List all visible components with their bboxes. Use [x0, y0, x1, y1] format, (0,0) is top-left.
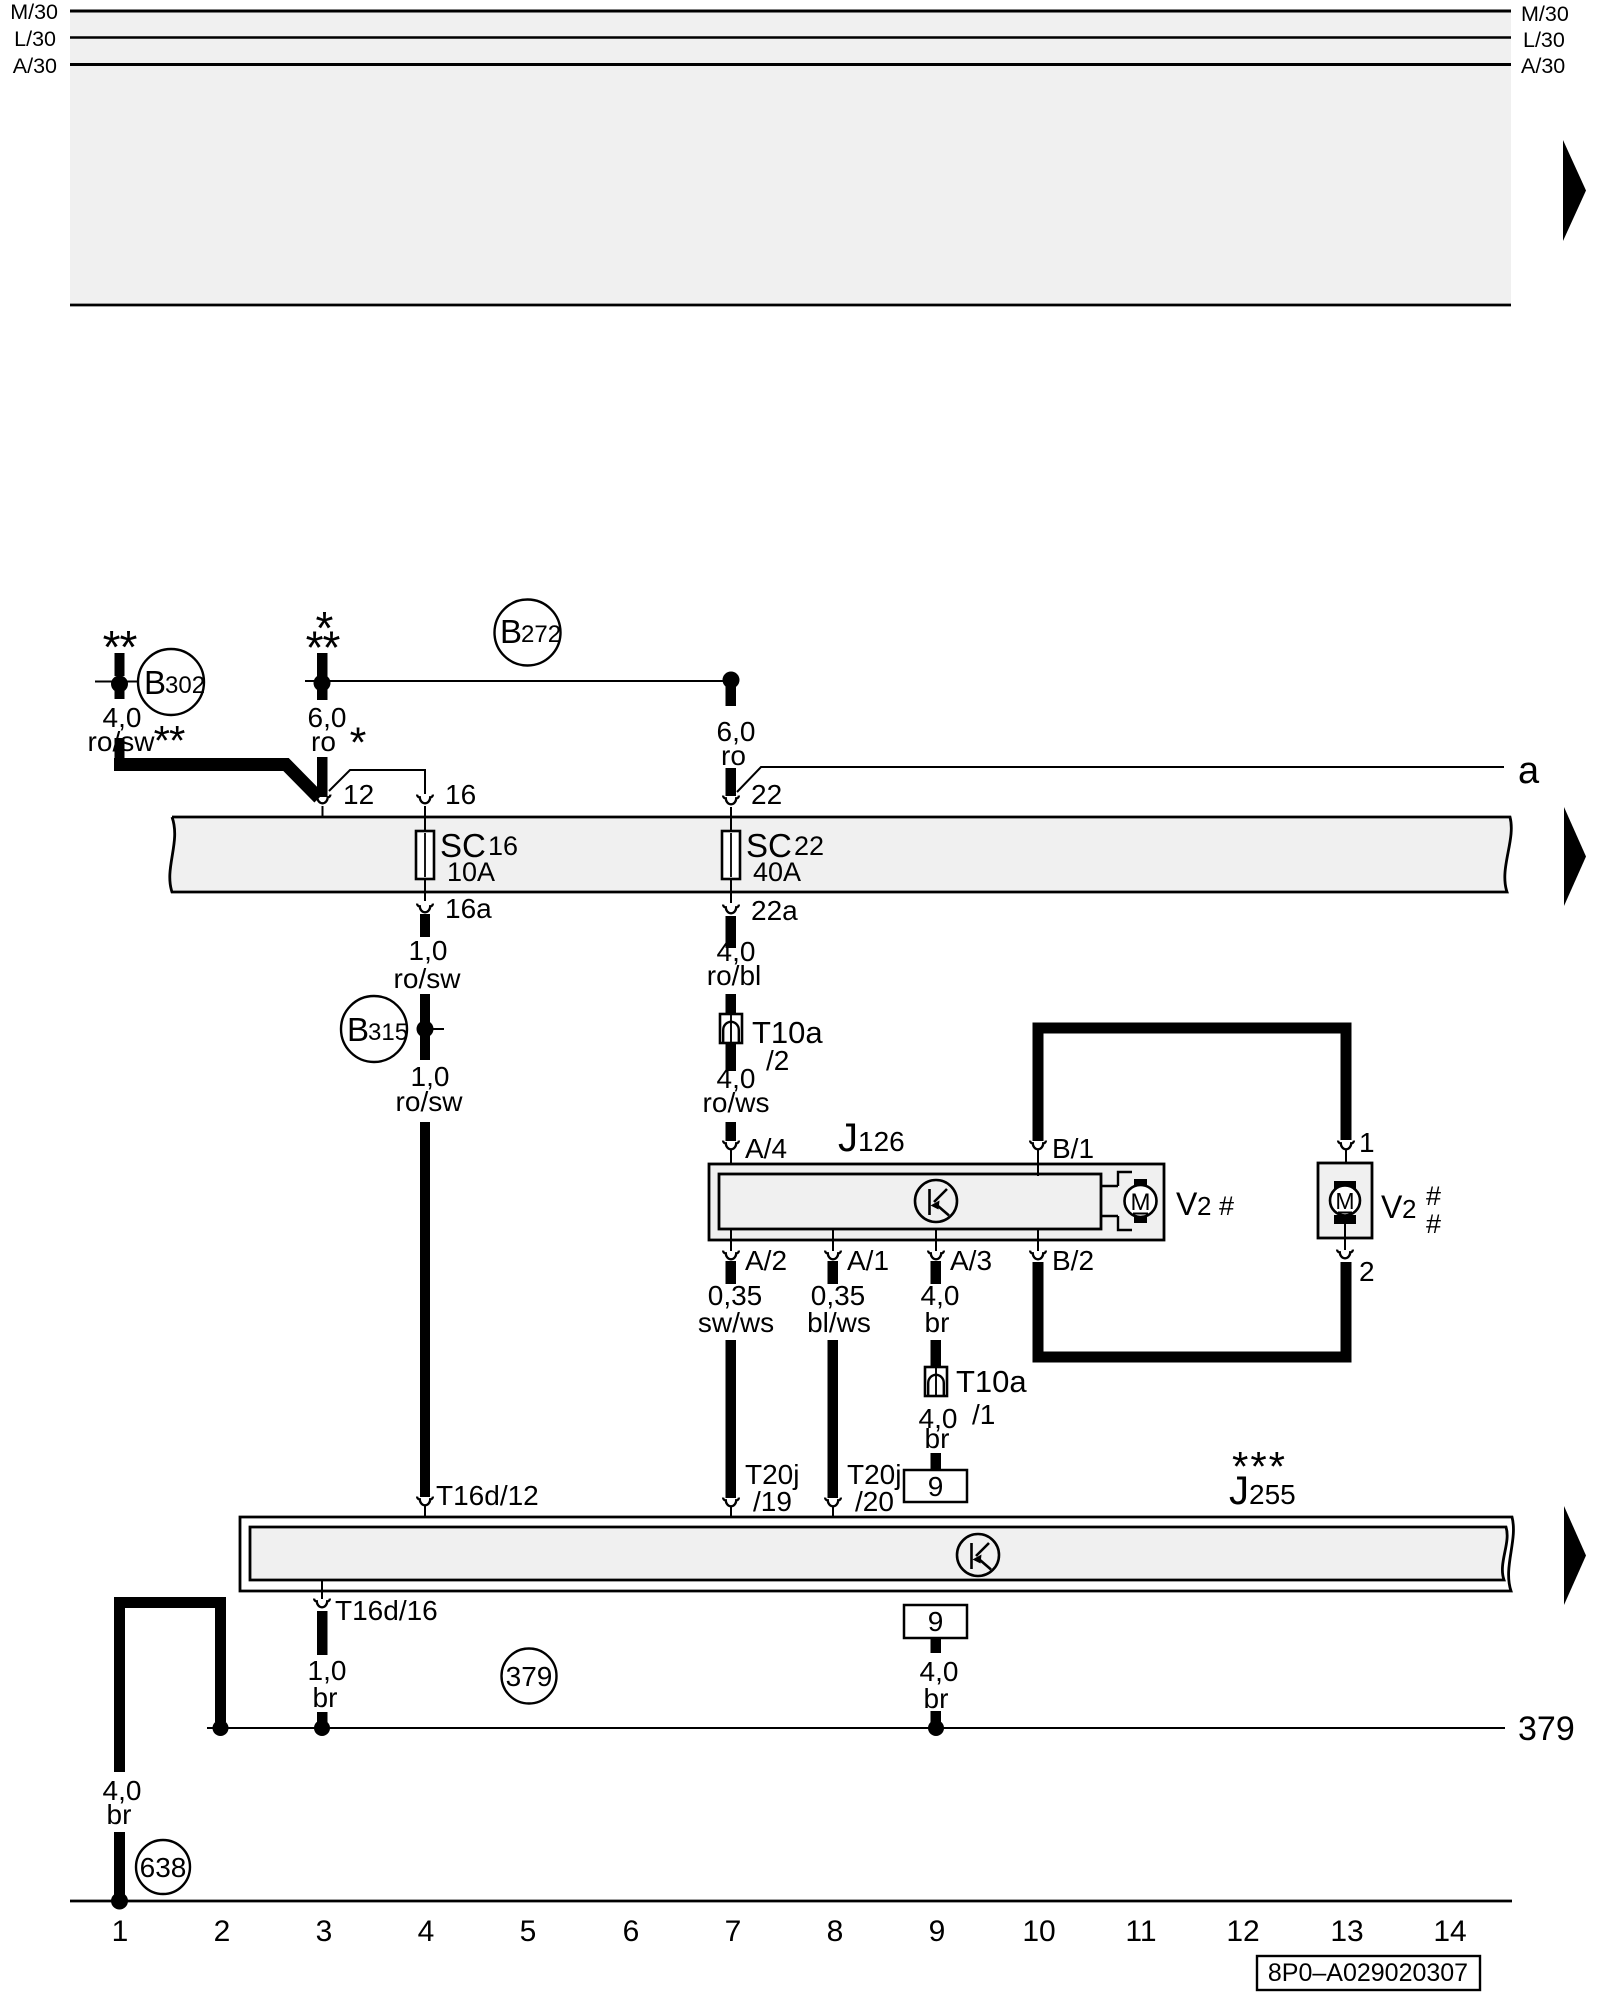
wire thin jumper B272 line: [305, 680, 731, 682]
terminal socket T16d/16: [314, 1580, 330, 1607]
svg-text:T10a: T10a: [956, 1364, 1027, 1399]
label 4,0 br (ground strap): [103, 1775, 142, 1830]
svg-text:*: *: [350, 719, 367, 767]
terminal socket 12: [315, 795, 331, 817]
bus band 30 (M/30 L/30 A/30 supply rail area): [70, 11, 1511, 305]
bottom rail line: [70, 1900, 1512, 1903]
pin label T20j/20: [847, 1459, 901, 1517]
svg-text:A/30: A/30: [13, 54, 57, 78]
label 0,35 bl/ws: [807, 1280, 871, 1338]
svg-text:5: 5: [520, 1915, 537, 1948]
junction dot B315: [417, 1021, 434, 1038]
junction dot (left leg to 379): [213, 1720, 229, 1736]
svg-text:2: 2: [1197, 1191, 1211, 1221]
svg-text:ro/bl: ro/bl: [707, 960, 761, 991]
track numbers 1-14: [112, 1915, 1467, 1948]
terminal socket B/1: [1030, 1141, 1046, 1176]
svg-text:#: #: [1426, 1181, 1441, 1211]
label 6,0 ro *: [308, 702, 367, 767]
svg-text:9: 9: [928, 1471, 944, 1502]
terminal socket B/2: [1030, 1229, 1046, 1259]
svg-text:T16d/16: T16d/16: [335, 1595, 438, 1626]
wire 6,0 ro (branch to terminal 12): [306, 602, 341, 797]
svg-text:A/30: A/30: [1521, 54, 1565, 78]
svg-text:11: 11: [1125, 1915, 1156, 1948]
terminal socket A/4: [723, 1141, 739, 1174]
terminal socket T20j/20: [825, 1498, 841, 1527]
wire long run to T16d/12: [420, 1122, 430, 1497]
wire 0,35 bl/ws: [828, 1261, 839, 1498]
svg-text:1: 1: [112, 1915, 129, 1948]
svg-text:B/1: B/1: [1052, 1133, 1094, 1164]
terminal socket T20j/19: [723, 1498, 739, 1527]
control module J255 box: [240, 1517, 1513, 1591]
svg-text:126: 126: [858, 1126, 905, 1157]
label 4,0 ro/sw **: [88, 702, 185, 764]
terminal socket 1 (V2##): [1338, 1141, 1354, 1184]
connector label T10a /1: [956, 1364, 1027, 1430]
svg-text:br: br: [924, 1683, 949, 1714]
wire thick bend into terminal 12: [114, 765, 319, 799]
continuation arrow top right: [1563, 140, 1586, 241]
svg-text:br: br: [313, 1682, 338, 1713]
svg-text:bl/ws: bl/ws: [807, 1307, 871, 1338]
svg-text:16a: 16a: [445, 893, 492, 924]
svg-text:8P0–A029020307: 8P0–A029020307: [1268, 1959, 1468, 1987]
wire 0,35 sw/ws: [726, 1261, 737, 1498]
svg-text:ro: ro: [311, 726, 336, 757]
svg-text:ro/sw: ro/sw: [394, 963, 462, 994]
svg-text:#: #: [1426, 1209, 1441, 1239]
label 1,0 br: [308, 1655, 347, 1713]
svg-text:V: V: [1176, 1186, 1198, 1222]
svg-text:br: br: [107, 1799, 132, 1830]
wire jumper terminal 12 to fuse 16: [329, 770, 425, 794]
junction dot at 6,0 ro: [314, 675, 331, 692]
sensor circle B302: [138, 649, 205, 715]
svg-text:ro: ro: [721, 740, 746, 771]
wire 1,0 ro/sw (below fuse 16): [420, 914, 430, 937]
connector T10a/2: [720, 994, 742, 1071]
svg-text:a: a: [1518, 750, 1540, 792]
fuse label SC22 40A: [746, 827, 824, 887]
svg-text:2: 2: [1359, 1256, 1375, 1287]
svg-text:638: 638: [140, 1852, 187, 1883]
svg-text:L/30: L/30: [1523, 28, 1565, 52]
junction dot (splice 9 to 379): [928, 1720, 944, 1736]
svg-text:22: 22: [751, 779, 782, 810]
sensor circle B315: [341, 996, 408, 1062]
svg-text:379: 379: [506, 1661, 553, 1692]
svg-text:1: 1: [1359, 1127, 1375, 1158]
svg-text:br: br: [925, 1307, 950, 1338]
terminal socket A/1: [825, 1229, 841, 1259]
label 4,0 ro/bl: [707, 936, 761, 991]
svg-text:B: B: [144, 664, 166, 701]
svg-text:7: 7: [725, 1915, 742, 1948]
continuation arrow fuse bar right: [1564, 807, 1586, 906]
ground circle 638: [136, 1840, 190, 1894]
wire to A/4: [726, 1122, 737, 1141]
svg-text:/19: /19: [753, 1486, 792, 1517]
svg-text:B/2: B/2: [1052, 1245, 1094, 1276]
svg-text:4: 4: [418, 1915, 435, 1948]
svg-text:B: B: [500, 613, 522, 650]
svg-text:V: V: [1381, 1189, 1403, 1225]
terminal socket 22: [723, 796, 739, 805]
control symbol K (J126): [915, 1180, 957, 1222]
svg-text:**: **: [154, 717, 185, 764]
svg-text:J: J: [1229, 1469, 1249, 1513]
ground point dot 638: [111, 1893, 128, 1910]
terminal socket T16d/12: [417, 1497, 433, 1527]
svg-text:2: 2: [214, 1915, 231, 1948]
label V2 ##: [1381, 1181, 1441, 1239]
svg-text:10: 10: [1022, 1915, 1055, 1948]
svg-text:M: M: [1131, 1189, 1151, 1216]
svg-text:/20: /20: [855, 1486, 894, 1517]
terminal socket 2 (V2##): [1337, 1224, 1353, 1258]
splice box 9 upper: [904, 1470, 967, 1502]
wire 4,0 ro/sw from B302 (left branch): [103, 621, 138, 760]
wire 4,0 br (splice 9 to ground bus): [931, 1638, 942, 1728]
control module J126 box: [709, 1164, 1164, 1240]
fuse SC22 40A: [722, 807, 740, 903]
svg-text:#: #: [1219, 1191, 1234, 1221]
ground bus wire 379: [207, 1727, 1505, 1729]
wire net a: [737, 767, 1504, 792]
svg-text:9: 9: [929, 1915, 946, 1948]
svg-text:9: 9: [928, 1606, 944, 1637]
label 1,0 ro/sw (lower): [396, 1061, 464, 1117]
fuse box bar (SC fuse panel): [170, 817, 1512, 892]
terminal socket 16a: [417, 904, 433, 913]
label 1,0 ro/sw: [394, 935, 462, 994]
svg-text:315: 315: [368, 1019, 408, 1046]
svg-text:L/30: L/30: [14, 27, 56, 51]
continuation arrow J255 right: [1564, 1506, 1586, 1605]
svg-text:B: B: [347, 1011, 369, 1048]
svg-text:J: J: [838, 1116, 858, 1160]
label V2 #: [1176, 1186, 1234, 1222]
label J126: [838, 1116, 905, 1160]
svg-text:8: 8: [827, 1915, 844, 1948]
connector label T10a /2: [752, 1015, 823, 1076]
svg-text:br: br: [925, 1423, 950, 1454]
svg-text:A/3: A/3: [950, 1245, 992, 1276]
label 4,0 br (T10a/1): [919, 1403, 958, 1454]
motor V2 sharp (attached, fresh air blower): [1101, 1172, 1157, 1230]
svg-text:sw/ws: sw/ws: [698, 1307, 774, 1338]
svg-text:22a: 22a: [751, 895, 798, 926]
label *** J255: [1229, 1443, 1296, 1513]
svg-text:3: 3: [316, 1915, 333, 1948]
connector T10a/1: [925, 1367, 947, 1470]
svg-text:T16d/12: T16d/12: [436, 1480, 539, 1511]
terminal socket 22a: [723, 905, 739, 914]
wire 4,0 br (A/3): [931, 1261, 942, 1367]
svg-text:A/4: A/4: [745, 1133, 787, 1164]
wire thick loop upper (B/1 to V2## pin 1): [1038, 1028, 1346, 1141]
svg-text:ro/sw: ro/sw: [396, 1086, 464, 1117]
wire B315 branch (x=425): [420, 994, 444, 1060]
svg-text:M/30: M/30: [10, 0, 58, 24]
fuse SC16 10A: [416, 806, 434, 901]
splice box 9 lower: [904, 1605, 967, 1638]
svg-text:/1: /1: [972, 1399, 995, 1430]
svg-text:M/30: M/30: [1521, 2, 1569, 26]
svg-text:13: 13: [1330, 1915, 1363, 1948]
label 4,0 ro/ws: [703, 1063, 770, 1118]
label 4,0 br (A/3): [921, 1280, 960, 1338]
svg-text:16: 16: [445, 779, 476, 810]
svg-text:/2: /2: [766, 1045, 789, 1076]
svg-text:ro/sw: ro/sw: [88, 726, 156, 757]
svg-text:12: 12: [343, 779, 374, 810]
svg-text:40A: 40A: [753, 857, 801, 887]
wire 4,0 ro/bl: [726, 916, 737, 948]
motor V2 ## box: [1318, 1163, 1372, 1238]
svg-text:A/1: A/1: [847, 1245, 889, 1276]
svg-text:10A: 10A: [447, 857, 495, 887]
ground circle 379: [502, 1649, 557, 1704]
fuse label SC16 10A: [440, 827, 518, 887]
svg-text:M: M: [1335, 1188, 1354, 1214]
svg-text:14: 14: [1433, 1915, 1466, 1948]
terminal socket A/3: [928, 1229, 944, 1259]
svg-text:302: 302: [165, 672, 205, 699]
junction dot B302 tap: [95, 676, 140, 693]
terminal socket 16: [417, 795, 433, 804]
svg-text:272: 272: [521, 621, 561, 648]
svg-text:12: 12: [1226, 1915, 1259, 1948]
pin label T20j/19: [745, 1459, 799, 1517]
control symbol K (J255): [957, 1534, 999, 1576]
junction dot (T16d/16 to 379): [314, 1720, 330, 1736]
wire 6,0 ro (down to fuse 22): [723, 672, 740, 797]
svg-text:1,0: 1,0: [409, 935, 448, 966]
wire thick loop lower (B/2 to V2## pin 2): [1038, 1262, 1346, 1357]
label 0,35 sw/ws: [698, 1280, 774, 1338]
wire 1,0 br (T16d/16): [317, 1611, 328, 1728]
svg-text:ro/ws: ro/ws: [703, 1087, 770, 1118]
sensor circle B272: [495, 600, 562, 666]
label 6,0 ro (fuse 22): [717, 716, 756, 771]
svg-text:6: 6: [623, 1915, 640, 1948]
svg-text:255: 255: [1249, 1479, 1296, 1510]
label 4,0 br (splice 9): [920, 1656, 959, 1714]
svg-text:379: 379: [1518, 1710, 1575, 1748]
wire 4,0 br ground strap (left bracket): [120, 1603, 221, 1899]
diagram number box 8P0-A029020307: [1257, 1956, 1480, 1990]
svg-text:A/2: A/2: [745, 1245, 787, 1276]
svg-text:2: 2: [1402, 1194, 1416, 1224]
terminal socket A/2: [723, 1229, 739, 1259]
